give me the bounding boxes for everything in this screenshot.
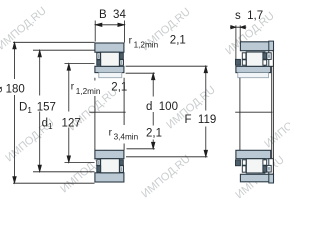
svg-text:B 34: B 34 [99, 9, 126, 21]
svg-text:d1 127: d1 127 [42, 118, 81, 132]
ext line d top [126, 72, 155, 74]
s dim arrows [230, 26, 246, 28]
right view top cage box LL [242, 60, 246, 65]
right view outer ring top band [240, 42, 273, 51]
dim line dia180 [14, 44, 16, 183]
s ext line inner face [235, 25, 237, 59]
right view top cage box UL [242, 53, 246, 59]
svg-text:F 119: F 119 [185, 114, 217, 126]
left view top cage bar LR [121, 61, 123, 64]
ext line D1 bottom [33, 171, 95, 173]
ext line d bottom [127, 148, 155, 150]
right view bottom cage box UL2 [242, 166, 246, 172]
left view bottom cage box LR [120, 166, 124, 172]
right view bottom cage protrusion strip [269, 159, 274, 175]
dim line d [152, 74, 154, 147]
left view top bore step [99, 73, 122, 78]
left view bottom cage bar LR [121, 167, 123, 171]
dim line d1 [68, 65, 70, 161]
right view bore line right outer [272, 51, 274, 175]
right view top flange box UR [263, 53, 267, 59]
right view bottom flange box LR2 [263, 166, 267, 172]
right view bore line right inner [271, 66, 273, 158]
left view top cage box UL [97, 53, 101, 59]
left view inner ring top band [95, 66, 124, 72]
s ext line outer face [239, 25, 241, 41]
right view top inner flange protruding box [236, 59, 241, 65]
left view bottom roller [101, 159, 120, 173]
right view top cage corner box [267, 53, 271, 60]
left view middle horizontal line [89, 111, 125, 113]
ext line d1 bottom [65, 162, 95, 164]
right view bottom cage box LL2 [242, 160, 246, 165]
ext line D1 top [33, 49, 95, 51]
right view outer ring top band right lip [269, 41, 274, 51]
dim line F [205, 67, 207, 155]
right view bottom flange box MR [263, 160, 267, 165]
ext line dia180 bottom [13, 182, 95, 184]
right view top bore step [238, 73, 269, 78]
left view outer ring top band [95, 43, 124, 52]
svg-text:d 100: d 100 [146, 101, 178, 113]
left view bottom cage bar UL [98, 161, 100, 164]
right view [236, 41, 274, 183]
ext line F bottom [126, 156, 208, 158]
right view outer ring bottom band right lip [269, 174, 274, 183]
right view bottom roller [246, 159, 265, 173]
left view top cage bar UL [98, 54, 100, 58]
left view top flange box UR [120, 53, 124, 59]
left view top cage box LR [120, 60, 124, 65]
right view top roller [246, 52, 265, 66]
right view top cage protrusion strip [269, 51, 274, 67]
svg-text:1,2min: 1,2min [76, 87, 101, 96]
svg-text:3,4min: 3,4min [114, 133, 139, 142]
svg-text:D1 157: D1 157 [19, 102, 56, 116]
left view top flange box LL [97, 60, 101, 65]
svg-text:1,2min: 1,2min [134, 41, 159, 50]
left view outer ring bottom band [95, 173, 124, 182]
ext line B left [94, 21, 96, 42]
svg-text:2,1: 2,1 [146, 128, 162, 140]
left view inner ring bottom band [95, 150, 124, 158]
svg-text:s 1,7: s 1,7 [235, 10, 263, 22]
right view bore line left [239, 78, 241, 150]
left view bottom flange box UR [120, 160, 124, 165]
dim line D1 [39, 52, 41, 171]
svg-text:⌀ 180: ⌀ 180 [0, 84, 25, 96]
left view top roller [101, 52, 120, 66]
right view bottom inner flange protruding box [236, 160, 241, 166]
ext line B right [124, 21, 126, 43]
right view bottom cage corner bar [268, 167, 270, 171]
right view outer ring bottom band [240, 174, 273, 182]
svg-text:2,1: 2,1 [170, 35, 186, 47]
right view top cage box LR [263, 60, 267, 65]
right view bottom cage corner box [267, 165, 271, 172]
left view bore line left [94, 78, 96, 150]
ext line F top [126, 65, 208, 67]
dim line B with arrows [95, 24, 124, 26]
left view bottom cage box UL [97, 160, 101, 165]
dimension graphics [13, 21, 247, 184]
right view top cage corner bar [268, 54, 270, 58]
ext line d1 top [65, 63, 95, 65]
left view bore line right [123, 78, 125, 150]
ext line dia180 top [13, 41, 95, 43]
right view inner ring top band [236, 66, 271, 72]
svg-text:2,1: 2,1 [111, 82, 127, 94]
right view middle horizontal line [235, 111, 272, 113]
right view inner ring bottom band [236, 150, 271, 158]
left view bottom flange box LL [97, 166, 101, 172]
